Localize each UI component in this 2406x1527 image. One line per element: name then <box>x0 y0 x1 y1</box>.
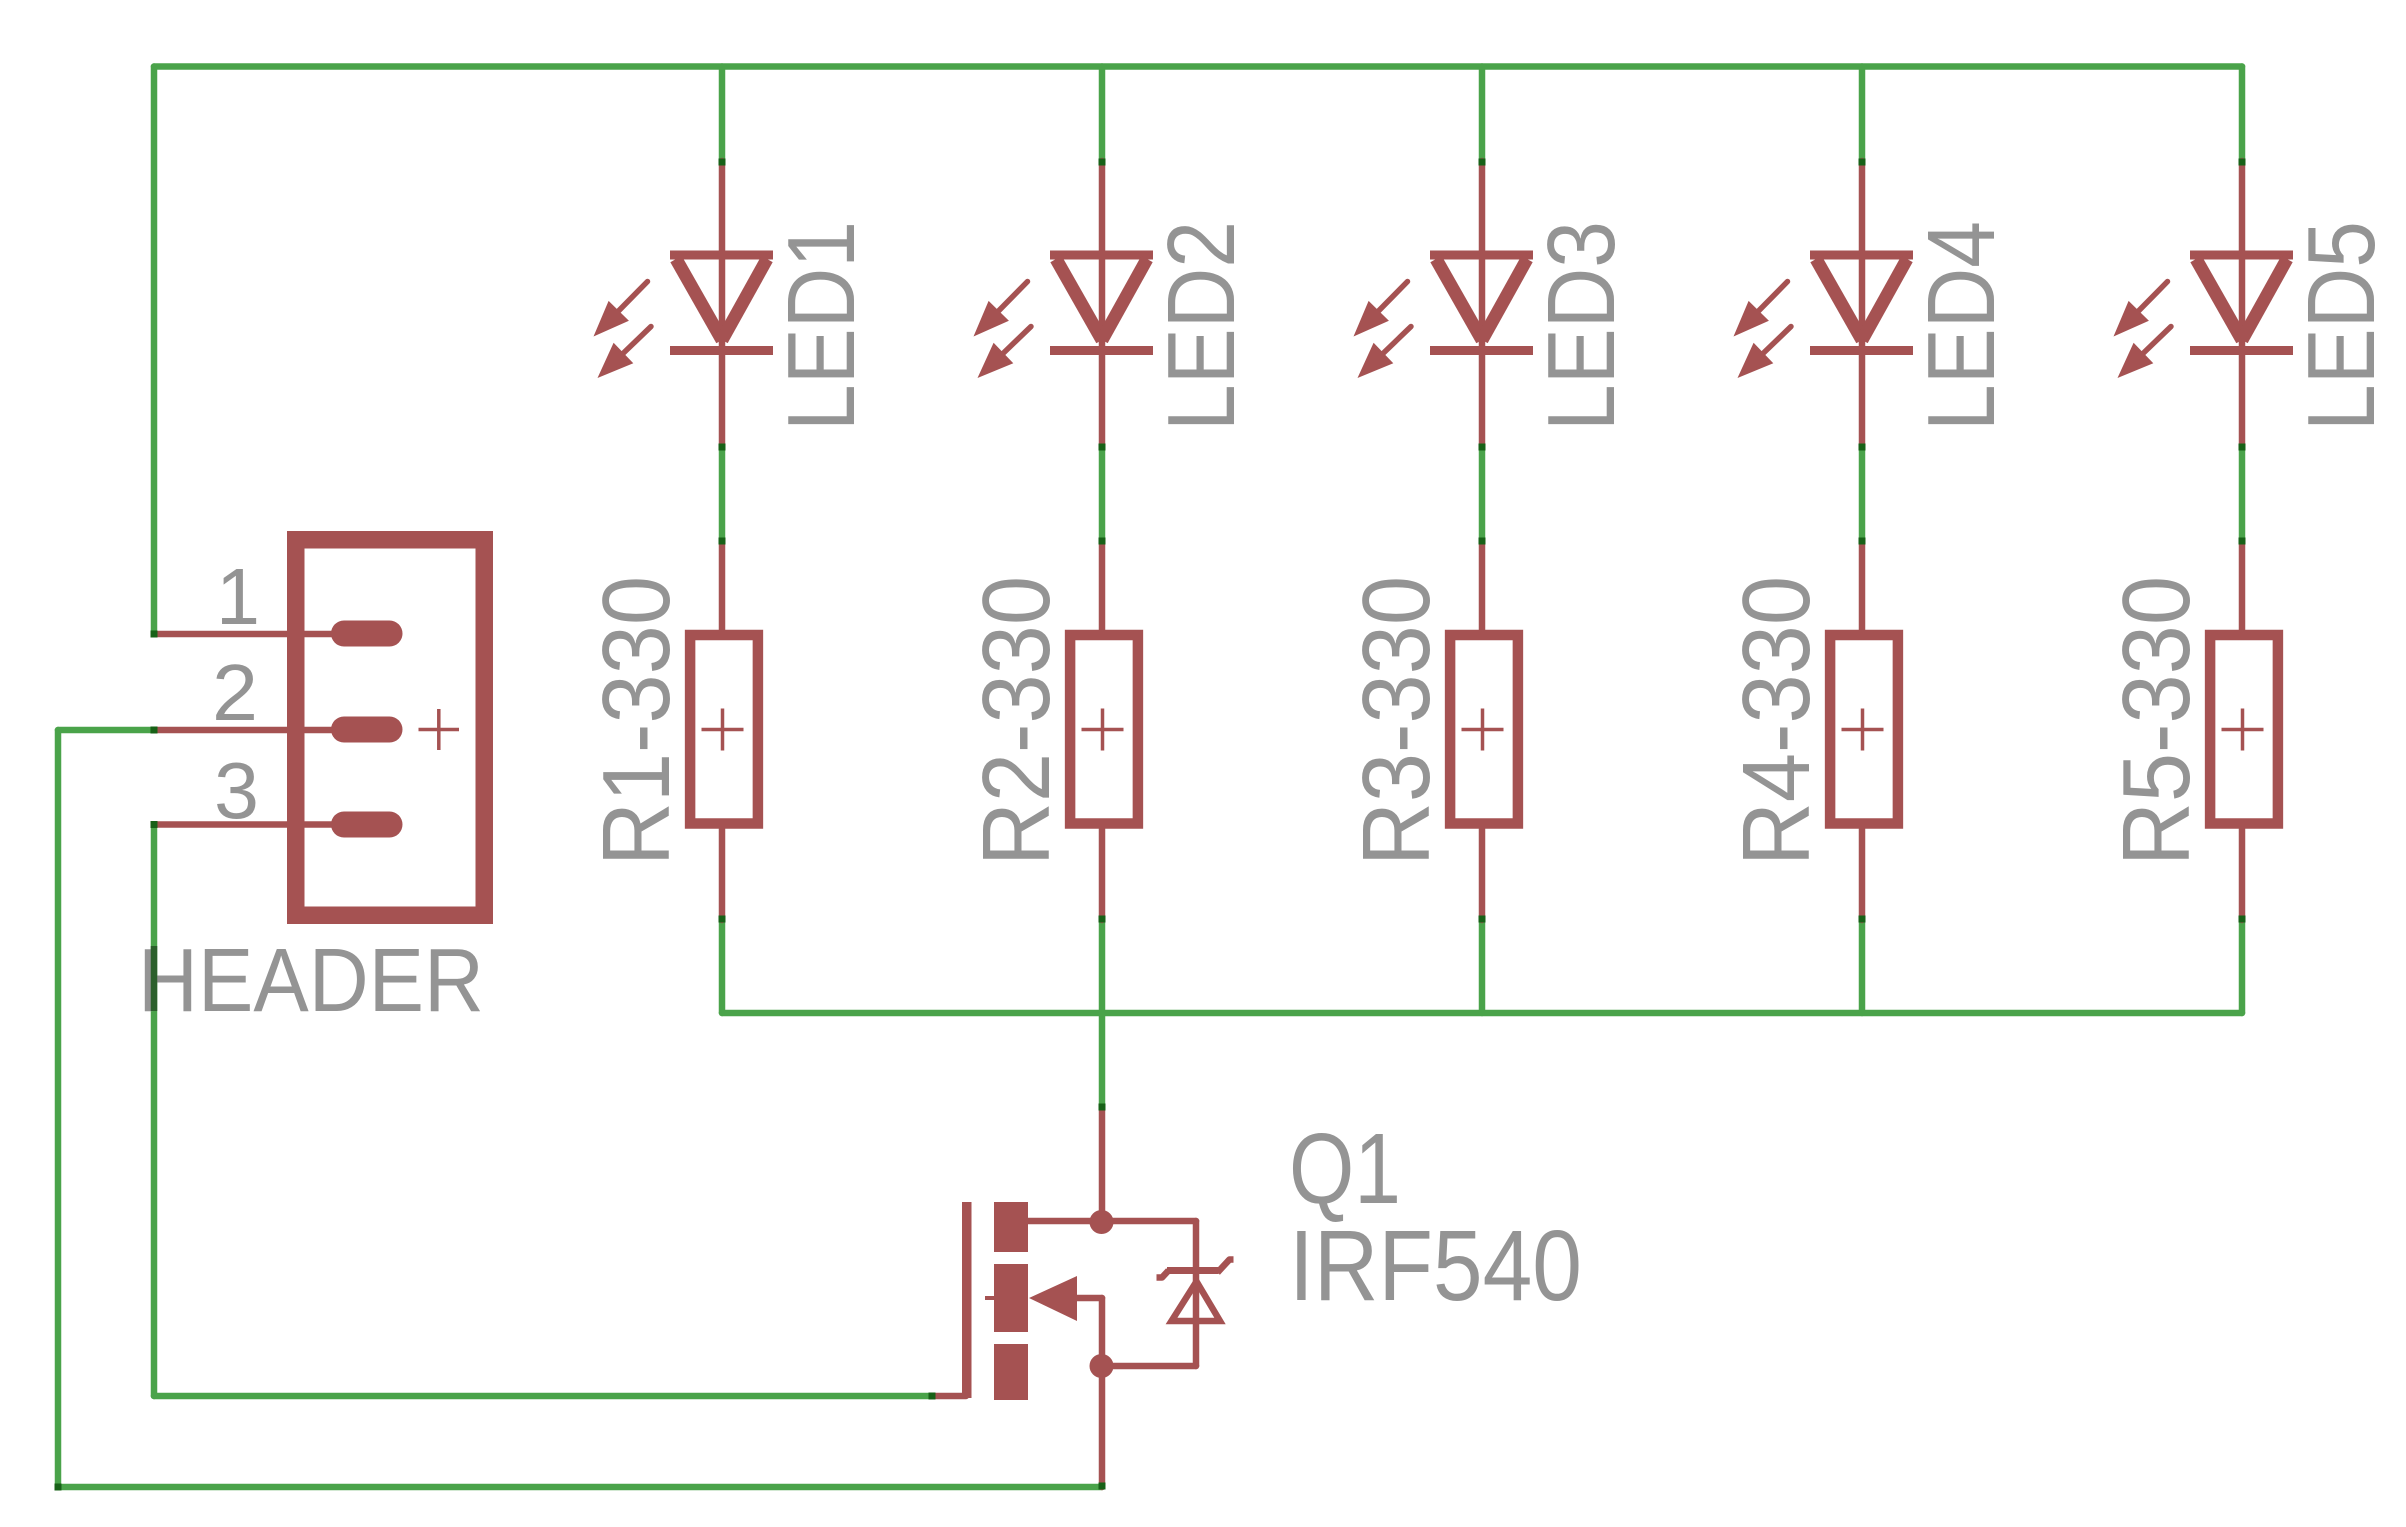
header pad pin 3 <box>331 812 403 838</box>
node connection points <box>55 159 2246 1491</box>
wire R2 bottom segment <box>1099 920 1106 1013</box>
wire LED4 branch top segment <box>1859 67 1866 162</box>
LED LED5 <box>2114 255 2294 378</box>
wire R4 bottom segment <box>1859 920 1866 1013</box>
wire LED4-R4 middle segment <box>1859 446 1866 541</box>
resistor R4 bottom lead <box>1859 829 1866 920</box>
resistor R4-330 <box>1830 635 1898 824</box>
resistor R2 bottom lead <box>1099 829 1106 920</box>
resistor R1 bottom lead <box>719 829 726 920</box>
header pin 3 lead <box>154 821 338 828</box>
resistor R1 top lead <box>719 541 726 631</box>
wire drain branch from rail <box>1099 1013 1106 1107</box>
svg-text:1: 1 <box>216 552 260 641</box>
LED5 anode-cathode lead <box>2239 161 2246 446</box>
transistor Q1 IRF540 MOSFET symbol <box>932 1202 1234 1487</box>
LED2 anode-cathode lead <box>1099 161 1106 446</box>
header pad pin 2 <box>331 717 403 743</box>
resistor R5 bottom lead <box>2239 829 2246 920</box>
svg-text:3: 3 <box>214 746 259 835</box>
resistor R5 top lead <box>2239 541 2246 631</box>
wire LED5-R5 middle segment <box>2239 446 2246 541</box>
wire LED3-R3 middle segment <box>1479 446 1486 541</box>
wire LED1 branch top segment <box>719 67 726 162</box>
header pin 2 lead <box>154 727 338 734</box>
wire LED1-R1 middle segment <box>719 446 726 541</box>
resistor R3 top lead <box>1479 541 1486 631</box>
header pin 1 lead <box>154 631 338 638</box>
svg-text:R1-330: R1-330 <box>583 576 690 866</box>
junction dot drain node <box>1090 1210 1114 1234</box>
wire header pin 2 horizontal <box>58 727 154 734</box>
LED3 anode-cathode lead <box>1479 161 1486 446</box>
resistor R1-330 <box>690 635 758 824</box>
resistor R2 top lead <box>1099 541 1106 631</box>
LED LED3 <box>1354 255 1534 378</box>
header pad pin 1 <box>331 621 403 647</box>
wire left frame vertical to header pin 1 <box>151 67 158 635</box>
wire R3 bottom segment <box>1479 920 1486 1013</box>
wire LED2-R2 middle segment <box>1099 446 1106 541</box>
wire bottom LED collector rail <box>722 1010 2242 1017</box>
svg-text:R3-330: R3-330 <box>1343 576 1450 866</box>
resistor R5-330 <box>2210 635 2278 824</box>
wire LED2 branch top segment <box>1099 67 1106 162</box>
wire header pin 2 left vertical <box>55 730 62 1487</box>
header origin cross <box>419 709 460 750</box>
wire header pin 3 vertical overlap on HEADER text <box>151 946 158 1011</box>
svg-text:LED2: LED2 <box>1148 221 1255 431</box>
svg-text:LED4: LED4 <box>1908 221 2015 431</box>
LED LED2 <box>974 255 1154 378</box>
svg-text:R2-330: R2-330 <box>963 576 1070 866</box>
Q1 drain lead <box>1099 1107 1106 1222</box>
LED LED1 <box>594 255 774 378</box>
wire bottom source return <box>58 1484 1102 1491</box>
svg-text:LED5: LED5 <box>2288 221 2395 431</box>
wire gate horizontal <box>154 1393 932 1400</box>
LED1 anode-cathode lead <box>719 161 726 446</box>
resistor R2-330 <box>1070 635 1138 824</box>
resistor R3-330 <box>1450 635 1518 824</box>
connector HEADER outline <box>296 540 485 916</box>
svg-text:R4-330: R4-330 <box>1723 576 1830 866</box>
wire header pin 3 vertical <box>151 825 158 1397</box>
svg-text:LED3: LED3 <box>1528 221 1635 431</box>
wire R1 bottom segment <box>719 920 726 1013</box>
wire top supply rail <box>154 63 2242 70</box>
LED LED4 <box>1734 255 1914 378</box>
svg-text:2: 2 <box>212 648 258 737</box>
svg-text:IRF540: IRF540 <box>1289 1210 1582 1322</box>
resistor R3 bottom lead <box>1479 829 1486 920</box>
wire LED3 branch top segment <box>1479 67 1486 162</box>
svg-text:HEADER: HEADER <box>138 931 484 1031</box>
LED4 anode-cathode lead <box>1859 161 1866 446</box>
svg-text:R5-330: R5-330 <box>2103 576 2210 866</box>
resistor R4 top lead <box>1859 541 1866 631</box>
wire R5 bottom segment <box>2239 920 2246 1013</box>
svg-text:Q1: Q1 <box>1289 1113 1401 1225</box>
svg-text:LED1: LED1 <box>768 221 875 431</box>
wire LED5 branch top segment <box>2239 67 2246 162</box>
junction dot source node <box>1090 1354 1114 1378</box>
